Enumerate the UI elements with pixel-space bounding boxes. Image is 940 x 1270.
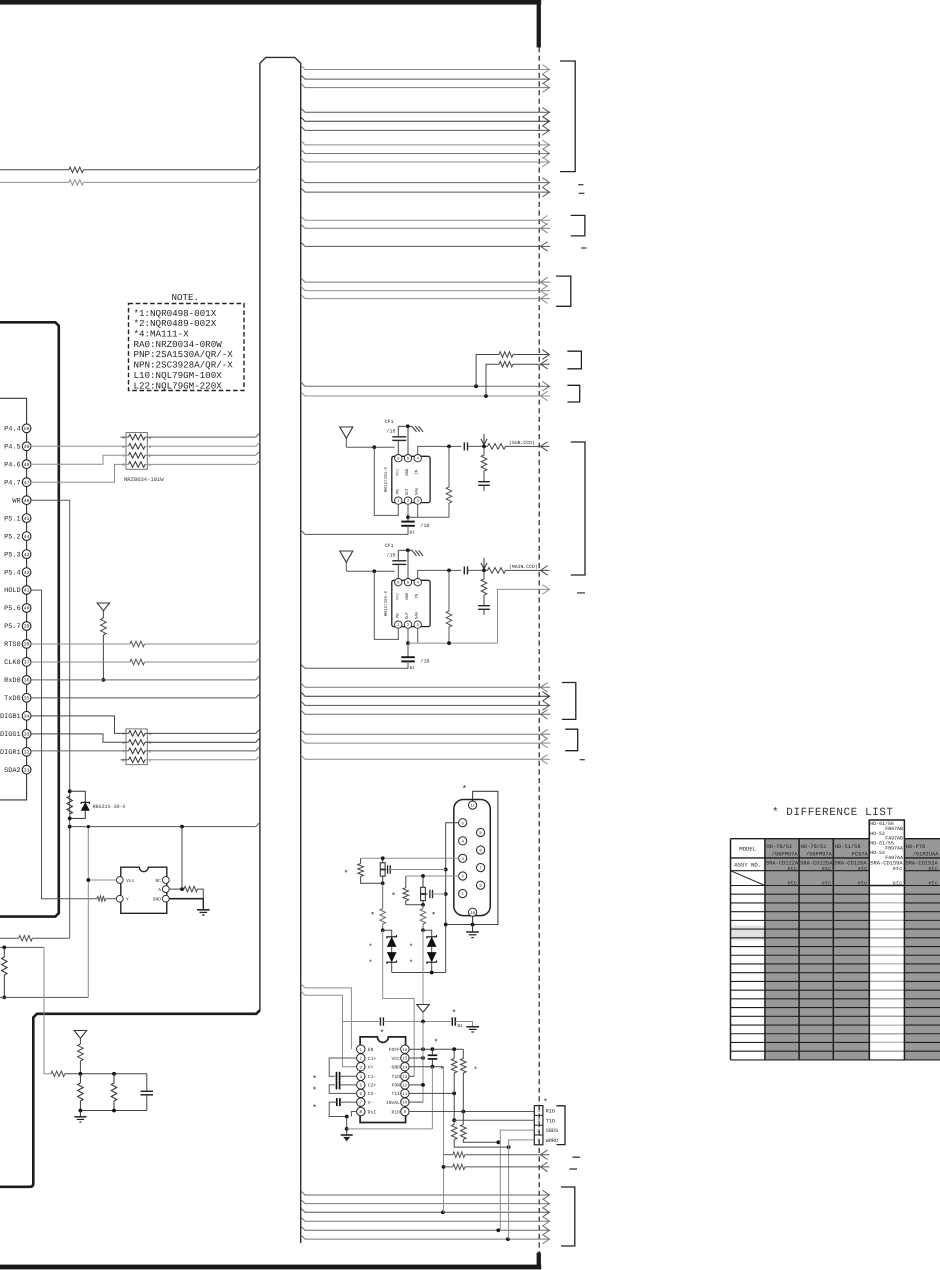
svg-text:*: *	[440, 1066, 444, 1075]
node table diagonal	[731, 871, 765, 886]
node pin HOLD (41)	[22, 586, 31, 595]
node junction	[447, 569, 451, 573]
node U3 pin 16	[401, 1045, 409, 1053]
wire rail to gnd	[455, 1022, 472, 1027]
node table grey col5 header	[869, 839, 904, 871]
node arrow y1195	[542, 1190, 549, 1200]
node pin P5.7 (39)	[22, 622, 31, 631]
svg-text:P5.6: P5.6	[4, 605, 21, 613]
node table row line	[731, 1033, 940, 1035]
filter U CF2 box	[392, 580, 430, 626]
node U3 pin 14	[401, 1063, 409, 1071]
svg-text:HD-52: HD-52	[870, 850, 885, 856]
svg-text:35: 35	[24, 696, 30, 702]
wire bus branch y714	[301, 710, 551, 714]
svg-text:INVAL: INVAL	[386, 1100, 400, 1106]
svg-text:B1: B1	[410, 531, 416, 536]
resistor output series	[488, 444, 506, 450]
wire top border bar	[0, 0, 541, 5]
wire CLK0 to bus	[145, 658, 260, 662]
svg-text:39: 39	[24, 624, 30, 630]
svg-text:SAG: SAG	[415, 487, 420, 495]
node arrow y687	[541, 683, 548, 693]
ground D-sub	[466, 931, 479, 933]
svg-text:P5.4: P5.4	[4, 569, 21, 577]
node arrow test B	[541, 1162, 548, 1172]
node junction	[87, 825, 90, 828]
node junction	[441, 1210, 445, 1214]
wire P4.6 to RA1	[31, 455, 129, 464]
svg-text:Y: Y	[126, 897, 129, 903]
wire zener link	[391, 947, 393, 953]
wire RxD0 to bus	[31, 676, 260, 680]
resistor test B	[453, 1164, 465, 1170]
svg-text:HD-51/56: HD-51/56	[835, 844, 861, 850]
node junction	[421, 874, 425, 878]
wire T1I link	[409, 1092, 454, 1094]
node arrow y153	[542, 149, 549, 159]
node arrow y79	[542, 74, 549, 84]
wire HOLD down rail	[31, 590, 98, 899]
wire bus branch y386	[301, 382, 551, 386]
wire GND pin stem	[407, 426, 409, 454]
node CF2 pin 5	[404, 579, 411, 586]
svg-text:WORD: WORD	[546, 1138, 558, 1144]
svg-text:P5.7: P5.7	[4, 623, 21, 631]
wire tri stem	[345, 438, 347, 447]
wire bus branch y759	[301, 755, 551, 759]
node junction	[444, 892, 448, 896]
node junction	[79, 1072, 83, 1076]
wire y1073 rail	[65, 1073, 147, 1075]
wire test A	[444, 1154, 453, 1156]
node CF1 pin 3	[414, 497, 421, 504]
node pin WR (46)	[22, 496, 31, 505]
node junction	[496, 1228, 500, 1232]
wire P4.7 to RA1	[31, 464, 129, 482]
svg-text:*: *	[473, 1066, 477, 1075]
node pin TxD0 (35)	[22, 693, 31, 702]
node CF2 pin 1	[395, 621, 402, 628]
wire RA1 row to bus y455	[145, 451, 260, 455]
svg-text:*: *	[368, 959, 372, 968]
node junction	[180, 825, 184, 829]
node pin P5.6 (40)	[22, 604, 31, 613]
wire bus branch y734	[301, 730, 551, 734]
wire bus branch y687	[301, 683, 551, 687]
svg-text:P5.2: P5.2	[4, 533, 21, 541]
capacitor B1	[401, 656, 415, 658]
wire OUT link	[408, 642, 498, 644]
svg-text:C1+: C1+	[368, 1056, 377, 1062]
wire R1O to CN	[409, 1111, 534, 1113]
wire OUT bottom	[407, 629, 409, 643]
capacitor series top	[379, 1017, 381, 1025]
resistor left vertical	[2, 957, 8, 975]
wire to bus y182	[83, 178, 260, 182]
node arrow y354	[542, 350, 549, 360]
svg-text:SAG: SAG	[415, 611, 420, 619]
wire gnd drop	[346, 1117, 348, 1129]
wire stub up 2	[486, 364, 499, 396]
wire pin3 net	[361, 857, 459, 859]
svg-text:*: *	[434, 1039, 439, 1048]
wire RTS0	[31, 643, 131, 645]
svg-text:15: 15	[402, 1057, 408, 1062]
ground U3	[341, 1134, 353, 1136]
op-amp U3 box	[360, 1037, 406, 1123]
wire FL1 cap to gnd	[390, 869, 446, 871]
node arrow y1221	[542, 1217, 549, 1227]
svg-text:NC: NC	[155, 878, 161, 884]
svg-text:NOTE.: NOTE.	[172, 292, 200, 303]
svg-text:/16: /16	[387, 429, 396, 435]
svg-text:RB521S-30-X: RB521S-30-X	[93, 804, 126, 810]
node junction	[461, 1110, 465, 1114]
node dash e	[573, 1156, 581, 1158]
resistor output series	[488, 568, 506, 574]
resistor to gnd	[481, 579, 487, 595]
wire vcc rail	[70, 822, 260, 826]
svg-text:etc: etc	[822, 880, 832, 886]
node arrow y282	[541, 277, 548, 287]
svg-text:etc: etc	[893, 880, 903, 886]
node bracket group E	[565, 729, 578, 751]
wire INVAL link	[409, 1101, 423, 1103]
node junction	[86, 878, 90, 882]
node U3 pin 6	[357, 1089, 365, 1097]
wire bus branch y153	[301, 149, 551, 153]
svg-text:L10:NQL79GM-100X: L10:NQL79GM-100X	[134, 370, 223, 381]
ground hatch	[412, 550, 417, 556]
resistor pullup A	[451, 1059, 457, 1074]
node diode cathode bar	[81, 802, 89, 804]
wire RA2 row to bus y759	[145, 756, 260, 760]
node D-sub pin 1	[459, 890, 467, 898]
node pin P4.6 (48)	[22, 460, 31, 469]
svg-text:45: 45	[24, 516, 30, 522]
resistor inline y938	[19, 936, 33, 942]
svg-text:T1O: T1O	[392, 1074, 401, 1080]
svg-text:P4.5: P4.5	[4, 443, 21, 451]
wire B1 to bus	[301, 526, 408, 535]
svg-text:WR: WR	[12, 497, 20, 505]
svg-text:etc: etc	[928, 866, 938, 872]
connector CN-D shell	[454, 800, 491, 916]
node table grey col 2	[765, 839, 799, 1060]
resistor RA1 element 1	[129, 434, 146, 440]
node U3 pin 9	[401, 1107, 409, 1115]
svg-text:R1O: R1O	[546, 1109, 555, 1115]
node junction	[482, 569, 486, 573]
node dash b	[579, 192, 585, 194]
filter FL2 element a	[421, 887, 426, 893]
resistor left pull	[78, 1044, 84, 1061]
wire RA2 row to bus y750	[145, 747, 260, 751]
wire bus branch y121	[301, 117, 551, 121]
wire bus branch y130	[301, 126, 551, 130]
wire bus branch y1239	[301, 1235, 551, 1239]
node junction	[345, 1115, 349, 1119]
node CF1 pin 2	[404, 497, 411, 504]
node table column line	[730, 839, 732, 1060]
wire C1 to pin4	[340, 1075, 357, 1077]
node pin P5.1 (45)	[22, 514, 31, 523]
svg-text:10: 10	[402, 1101, 408, 1106]
svg-text:etc: etc	[893, 866, 903, 872]
wire bus branch y182	[301, 178, 551, 182]
capacitor to gnd	[478, 605, 490, 607]
wire left input y997	[0, 996, 88, 998]
svg-text:*: *	[409, 959, 413, 968]
svg-text:42: 42	[24, 570, 30, 576]
capacitor bottom-left	[141, 1090, 154, 1092]
node U3 pin 13	[401, 1072, 409, 1080]
wire gnd column	[443, 1067, 445, 1213]
node U3 pin 12	[401, 1081, 409, 1089]
capacitor series	[463, 442, 465, 450]
wire zener bottom	[391, 962, 393, 972]
node U3 pin 3	[357, 1063, 365, 1071]
wire cap stems	[397, 564, 399, 578]
wire gnd wire	[398, 549, 412, 551]
node arrow y246	[541, 242, 548, 252]
svg-text:(MAIN.CCD): (MAIN.CCD)	[509, 564, 538, 570]
node bracket CCD outputs	[571, 442, 585, 575]
node CF1 pin 6	[395, 455, 402, 462]
node D-sub pin 8	[477, 846, 485, 854]
node arrow y112	[542, 108, 549, 118]
wire P4.5 to RA1	[31, 445, 129, 447]
node arrow y1230	[542, 1226, 549, 1236]
wire bus branch y282	[301, 278, 551, 282]
wire stub 1 tail	[513, 354, 550, 356]
node U2 pin Vcc	[116, 877, 123, 884]
wire U2 Vcc	[88, 879, 116, 881]
wire SBDS to CN	[500, 1130, 534, 1230]
svg-text:VCC: VCC	[392, 1056, 401, 1062]
resistor to gnd	[481, 455, 487, 471]
wire bus branch y290	[301, 286, 551, 290]
resistor series lower	[420, 909, 426, 925]
svg-text:etc: etc	[858, 866, 868, 872]
wire SAG drop	[448, 570, 450, 611]
node junction	[442, 1165, 446, 1169]
svg-text:PNP:2SA1530A/QR/-X: PNP:2SA1530A/QR/-X	[134, 349, 234, 360]
wire RA1 row to bus y446	[145, 442, 260, 446]
wire vcc top rail	[343, 1021, 379, 1023]
wire GND pin stem	[407, 550, 409, 578]
resistor RA1 element 2	[129, 444, 146, 450]
node D-sub pin 3	[459, 854, 467, 862]
svg-text:*4:MA111-X: *4:MA111-X	[134, 329, 190, 340]
node junction	[68, 789, 72, 793]
svg-text:46: 46	[24, 498, 30, 504]
svg-text:MM1573XN-X: MM1573XN-X	[384, 590, 389, 616]
svg-text:FB97AA: FB97AA	[885, 845, 903, 851]
svg-text:*: *	[462, 785, 467, 794]
node dash f	[570, 1168, 578, 1170]
node arrow y1239	[542, 1234, 549, 1244]
capacitor series	[463, 566, 465, 574]
resistor pulldown B	[461, 1124, 467, 1139]
svg-text:14: 14	[402, 1065, 408, 1070]
node arrow y290	[541, 286, 548, 296]
wire C2 to pin5	[340, 1084, 357, 1086]
node junction	[421, 1056, 425, 1060]
node junction	[421, 1047, 425, 1051]
svg-text:GND: GND	[405, 592, 410, 600]
node table row line	[731, 1050, 940, 1052]
svg-text:/56FM97A: /56FM97A	[772, 852, 799, 858]
node junction	[421, 903, 425, 907]
wire IN net	[418, 570, 462, 578]
svg-text:HD-P70: HD-P70	[906, 844, 925, 850]
node table header lines	[731, 838, 940, 840]
diode RB521S-30-X	[81, 803, 89, 810]
resistor RA2 element 2	[129, 740, 146, 746]
wire B1 stem	[407, 643, 409, 647]
resistor inline y182	[69, 180, 84, 186]
svg-text:(SUB.CCD): (SUB.CCD)	[509, 440, 535, 446]
node arrow y298	[541, 294, 548, 304]
node arrow y69	[542, 65, 549, 75]
node junction	[431, 1047, 435, 1051]
wire to arrow	[506, 445, 550, 447]
node pin DIGB1 (34)	[22, 711, 31, 720]
svg-text:*2:NQR0489-002X: *2:NQR0489-002X	[134, 318, 217, 329]
capacitor vcc decouple	[428, 1054, 438, 1056]
node D-sub pin 2	[459, 872, 467, 880]
node junction	[506, 1237, 510, 1241]
svg-text:*: *	[409, 943, 413, 952]
node D-sub pin 9	[477, 828, 485, 836]
resistor CLK0 series	[130, 659, 145, 665]
node pin RTS0 (38)	[22, 640, 31, 649]
node table grey col 4	[833, 839, 869, 1060]
wire GND stub	[202, 899, 204, 910]
svg-text:V+: V+	[368, 1065, 374, 1071]
resistor y1073 series	[51, 1071, 65, 1077]
node table row line	[731, 937, 940, 939]
wire RA1 row1 stub	[121, 436, 129, 438]
resistor SAG	[446, 611, 452, 627]
resistor RA2 element 3	[129, 748, 146, 754]
capacitor C2	[336, 1081, 338, 1090]
svg-text:etc: etc	[822, 866, 832, 872]
wire tri stem	[79, 1038, 81, 1044]
node junction	[112, 1072, 116, 1076]
svg-text:47: 47	[24, 480, 30, 486]
wire SAG drop	[448, 446, 450, 487]
svg-text:RxD0: RxD0	[4, 677, 21, 685]
wire FOFF rail	[409, 1048, 463, 1050]
wire bus branch y87	[301, 83, 551, 87]
node arrow y1212	[542, 1208, 549, 1218]
wire DIGR1 to RA2	[31, 750, 129, 752]
wire left input y938	[0, 937, 19, 939]
node junction	[452, 1092, 456, 1096]
node pin P4.5 (49)	[22, 442, 31, 451]
svg-text:*: *	[452, 1009, 457, 1018]
svg-text:A: A	[158, 887, 161, 893]
svg-text:DIGG1: DIGG1	[0, 731, 21, 739]
wire A riser	[181, 827, 183, 890]
wire after cap	[468, 445, 488, 447]
svg-text:T1O: T1O	[546, 1118, 555, 1124]
svg-text:FON: FON	[392, 1083, 401, 1089]
wire PB loop	[374, 447, 398, 515]
wire net2 riser	[422, 930, 424, 1004]
resistor SAG	[446, 487, 452, 503]
node table column line	[868, 839, 870, 1060]
node junction	[507, 1145, 511, 1149]
node table column line	[903, 839, 905, 1060]
node D-sub pin 6	[477, 881, 485, 889]
wire bus branch y228	[301, 224, 551, 228]
node junction	[471, 923, 475, 927]
node arrow y714	[541, 710, 548, 720]
node U3 pin 8	[357, 1107, 365, 1115]
svg-text:OUT: OUT	[405, 611, 410, 619]
svg-text:FOFF: FOFF	[389, 1047, 400, 1053]
wire connector inner outline	[0, 398, 27, 800]
wire pulldown A tail	[454, 1140, 508, 1148]
wire RxD0 pull tail	[102, 635, 104, 680]
wire rail mid	[383, 1021, 450, 1023]
node pin DIGR1 (32)	[22, 747, 31, 756]
svg-text:PB: PB	[395, 489, 400, 494]
node frame triangle	[417, 1005, 429, 1013]
resistor pull-up 2	[499, 361, 513, 367]
node arrow y220	[541, 215, 548, 225]
node CF1 pin 1	[395, 497, 402, 504]
wire pin10 gnd	[472, 916, 474, 931]
svg-text:*: *	[312, 1104, 317, 1113]
node junction	[421, 928, 425, 932]
wire WORD to CN	[509, 1140, 535, 1239]
wire gnd wire	[398, 425, 412, 427]
filter U CF1 box	[392, 456, 430, 502]
node table row line	[731, 946, 940, 948]
svg-text:P4.6: P4.6	[4, 461, 21, 469]
capacitor B1 input	[451, 1017, 453, 1025]
wire C2 loop	[329, 1085, 356, 1094]
node dash d	[580, 759, 585, 761]
svg-text:TxD0: TxD0	[4, 695, 21, 703]
svg-text:ASSY NO.: ASSY NO.	[734, 862, 761, 869]
svg-text:HOLD: HOLD	[4, 587, 21, 595]
svg-text:36: 36	[24, 678, 30, 684]
node table row line	[731, 1015, 940, 1017]
node table column line	[764, 839, 766, 1060]
svg-text:12: 12	[402, 1084, 408, 1089]
wire PB loop	[374, 571, 398, 639]
node arrow out	[541, 566, 548, 576]
diode zener lower	[388, 953, 396, 962]
node junction	[112, 1109, 116, 1113]
svg-text:CF1: CF1	[385, 543, 394, 549]
wire RA1 row to bus y437	[145, 433, 260, 437]
svg-text:P5.1: P5.1	[4, 515, 21, 523]
node junction	[79, 1109, 83, 1113]
svg-text:FB97AB: FB97AB	[885, 826, 903, 832]
node junction	[68, 825, 72, 829]
node junction	[2, 996, 6, 1000]
node junction	[381, 856, 385, 860]
node table row line	[731, 998, 940, 1000]
wire bus branch y79	[301, 75, 551, 79]
